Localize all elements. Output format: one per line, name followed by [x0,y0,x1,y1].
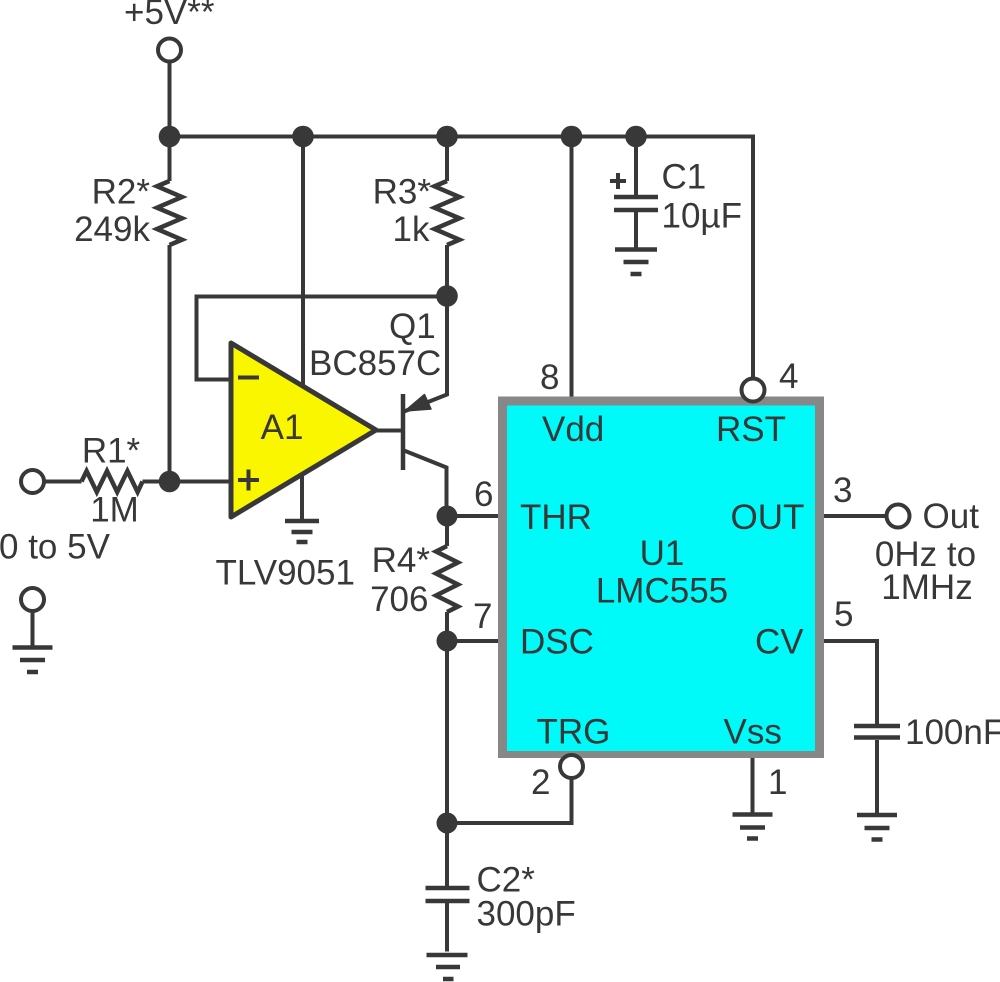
svg-text:TRG: TRG [537,713,611,752]
svg-text:706: 706 [370,580,428,619]
svg-text:1: 1 [768,763,787,802]
svg-text:6: 6 [474,475,493,514]
svg-text:8: 8 [540,358,559,397]
svg-text:BC857C: BC857C [309,344,441,383]
svg-text:4: 4 [779,357,798,396]
svg-text:R2*: R2* [92,173,151,212]
svg-text:DSC: DSC [520,623,594,662]
svg-text:C1: C1 [662,158,707,197]
svg-text:THR: THR [520,498,592,537]
svg-text:10µF: 10µF [662,197,742,236]
svg-text:1k: 1k [393,210,430,249]
svg-text:TLV9051: TLV9051 [216,554,355,593]
svg-text:2: 2 [531,763,550,802]
svg-text:R3*: R3* [373,173,432,212]
svg-text:300pF: 300pF [477,895,576,934]
svg-text:RST: RST [716,410,786,449]
svg-text:100nF: 100nF [905,713,1000,752]
svg-text:7: 7 [473,597,492,636]
svg-text:R4*: R4* [372,541,431,580]
svg-text:CV: CV [755,623,804,662]
svg-text:Q1: Q1 [389,307,436,346]
svg-text:1MHz: 1MHz [881,568,972,607]
svg-text:LMC555: LMC555 [596,572,728,611]
svg-text:1M: 1M [90,491,139,530]
svg-text:OUT: OUT [731,498,805,537]
svg-text:U1: U1 [640,534,685,573]
svg-text:Out: Out [923,497,980,536]
svg-text:Vss: Vss [724,713,782,752]
svg-text:0 to 5V: 0 to 5V [0,528,111,567]
svg-text:Vdd: Vdd [542,410,604,449]
svg-text:A1: A1 [261,408,304,447]
svg-text:3: 3 [833,471,852,510]
svg-text:+5V**: +5V** [124,0,215,32]
svg-text:R1*: R1* [82,432,141,471]
svg-text:249k: 249k [74,210,150,249]
svg-text:5: 5 [834,595,853,634]
